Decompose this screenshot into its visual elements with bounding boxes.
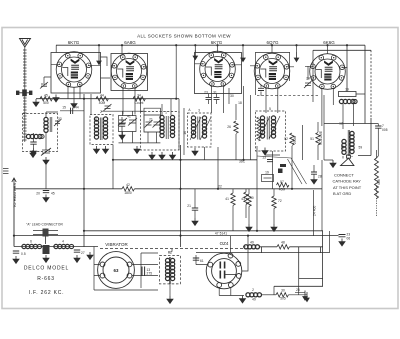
IFT1 secondary (202, 116, 206, 138)
cap at RF sec (119, 124, 125, 126)
vibrator transformer dashed box (159, 256, 180, 284)
vibrator wiring (94, 247, 158, 291)
svg-text:28: 28 (318, 175, 322, 179)
svg-text:21: 21 (149, 118, 153, 122)
tube V4 pin stubs (250, 66, 294, 113)
vibrator unit (98, 252, 135, 289)
cap 20-45 on AVC line (45, 160, 47, 189)
spark plate cap (43, 245, 50, 254)
tube V3 6K7G IF (200, 51, 236, 87)
tube V1 pin stubs (51, 64, 101, 100)
svg-text:72: 72 (278, 199, 282, 203)
heater rail arrow (12, 178, 16, 184)
svg-text:TO HEATERS: TO HEATERS (12, 182, 17, 208)
cap 21 (192, 208, 198, 210)
IFT1 primary (191, 116, 195, 138)
svg-text:19: 19 (265, 171, 269, 175)
svg-text:49: 49 (250, 241, 254, 245)
svg-text:275: 275 (147, 272, 153, 276)
V4 side wires (256, 52, 290, 95)
IFT2 primary (260, 116, 264, 138)
resistor 52 vertical (291, 146, 293, 189)
vertical wires x243 x250 x302 (244, 86, 303, 160)
svg-text:500: 500 (43, 101, 49, 105)
choke 2h bottom (246, 293, 262, 297)
long vertical x324 (323, 95, 325, 160)
gnd below cluster (134, 146, 140, 153)
bus y236 wire (14, 235, 339, 237)
dashed grid lead (257, 95, 318, 97)
cap below ant coil (30, 142, 36, 144)
output transformer secondary (342, 139, 346, 154)
svg-text:VIBRATOR: VIBRATOR (105, 242, 128, 247)
antenna (20, 39, 31, 48)
oscillator coil dashed box (141, 112, 180, 151)
vertical wire x218 (217, 147, 219, 189)
IF transformer 2 dashed box (256, 111, 286, 151)
cluster wires (119, 108, 161, 143)
svg-text:DELCO MODEL: DELCO MODEL (24, 266, 69, 272)
cap 27 (74, 250, 80, 252)
resistor 51 (316, 133, 320, 145)
svg-text:45: 45 (44, 94, 48, 98)
wire volume feed (313, 190, 315, 236)
svg-text:31: 31 (213, 91, 217, 95)
svg-text:505: 505 (280, 297, 286, 301)
trimmer below V2 (104, 104, 112, 111)
resistor box 19 (339, 92, 357, 97)
capacitor 15 (71, 108, 73, 114)
B+ filter wire y246.8 (243, 247, 323, 279)
capacitor 20-45 (43, 191, 49, 193)
svg-text:005: 005 (382, 128, 388, 132)
capacitor 7-005 (375, 126, 381, 128)
svg-text:4: 4 (62, 240, 64, 244)
top bus wire (56, 44, 365, 46)
vertical wire x257 (256, 146, 258, 231)
A lead connector symbol (33, 229, 58, 245)
hash cap left (13, 251, 19, 253)
arrow stub V3 grid (193, 50, 197, 60)
RF transformer primary (94, 117, 98, 139)
long vertical x347 (346, 45, 348, 91)
wires above bottom row (274, 279, 323, 295)
svg-text:3: 3 (198, 109, 200, 113)
svg-text:Count: Count (134, 101, 143, 105)
svg-text:57: 57 (280, 180, 284, 184)
tube V5 6K6G (310, 54, 346, 90)
svg-text:41: 41 (225, 197, 229, 201)
bus y189 wire (14, 188, 322, 190)
vertical wire x113 (112, 145, 114, 161)
speaker (341, 155, 354, 166)
ground below cap 20 (43, 195, 49, 202)
svg-text:49: 49 (252, 298, 256, 302)
svg-text:CONNECT: CONNECT (334, 173, 354, 178)
svg-text:6: 6 (30, 240, 32, 244)
ground bottom right (305, 292, 309, 302)
resistor 26 vertical (234, 121, 238, 133)
wire corner x113 (112, 160, 114, 189)
wire osc coil feeds (141, 99, 185, 155)
ground below ant cap (31, 148, 37, 155)
svg-text:34: 34 (137, 93, 141, 97)
ground below transformer (169, 284, 171, 296)
wire output loop right (324, 118, 378, 156)
svg-text:24 400: 24 400 (313, 206, 317, 216)
svg-text:18: 18 (238, 101, 242, 105)
shield box V3 (195, 53, 242, 94)
svg-text:6A8G: 6A8G (124, 40, 136, 45)
field resistor wires (376, 150, 378, 158)
svg-text:250M: 250M (293, 135, 297, 144)
right section wiring (324, 67, 365, 160)
ground osc 2 (159, 152, 165, 159)
svg-text:CATHODE RAY: CATHODE RAY (333, 179, 362, 184)
svg-text:42: 42 (126, 183, 130, 187)
ground RF secondary (103, 146, 109, 153)
IF transformer 1 dashed box (188, 113, 212, 147)
cap 15uu on line y111 (60, 110, 84, 112)
svg-text:"A" LEAD CONNECTOR: "A" LEAD CONNECTOR (26, 223, 63, 227)
step wire right of V1 (101, 57, 111, 78)
trimmer cap 24 (304, 81, 312, 89)
ground osc 3 (170, 152, 176, 159)
resistor inside IFT2 (257, 117, 261, 141)
svg-text:27: 27 (81, 251, 85, 255)
ground cap 0.5 (13, 256, 19, 263)
choke 49 (244, 245, 260, 249)
svg-text:33: 33 (58, 117, 62, 121)
resistor 48 (277, 245, 289, 249)
trimmer caps between RF and osc (118, 116, 137, 132)
shield box V1 (51, 53, 101, 94)
tube V4 6Q7G (254, 53, 290, 89)
svg-text:I.F. 262 KC.: I.F. 262 KC. (29, 290, 65, 296)
svg-text:40M: 40M (99, 101, 106, 105)
vibrator cap 13 (142, 267, 145, 276)
RF transformer dashed box (90, 115, 113, 145)
osc padder solid box (144, 115, 160, 132)
cap 7 on right (377, 124, 379, 159)
bottom filter wire y246.5 (14, 246, 98, 248)
field coil row (339, 99, 355, 103)
bus y160 wire (113, 159, 257, 161)
ground cap 23 (339, 239, 345, 246)
field resistor vertical (375, 158, 379, 199)
chassis dashed wire (100, 248, 243, 250)
left rail wire (13, 184, 15, 247)
ground below padder (43, 157, 49, 164)
filter choke 1 (22, 244, 38, 248)
svg-text:20: 20 (36, 192, 40, 196)
svg-text:6K6G: 6K6G (323, 40, 335, 45)
caps under V3 box (209, 94, 217, 104)
svg-text:5: 5 (269, 107, 271, 111)
resistor 30 bottom (276, 293, 288, 297)
svg-text:26: 26 (227, 125, 231, 129)
svg-text:40M: 40M (279, 188, 286, 192)
svg-text:24: 24 (306, 77, 310, 81)
scattered part labels (58, 77, 381, 302)
IFT2 secondary (271, 116, 275, 138)
secondary top bus wire (313, 49, 371, 51)
osc coil winding 2 (170, 115, 174, 137)
ground cap 21b (311, 177, 317, 184)
cap 23 bottom right (339, 235, 346, 237)
svg-text:6K7G: 6K7G (211, 40, 223, 45)
ground right of filter (87, 252, 93, 259)
bus y231 wire (84, 231, 323, 286)
tube V5 pin stubs (305, 66, 347, 126)
resistor 45 (40, 97, 52, 101)
heater ground arrows left (30, 150, 36, 157)
svg-text:8: 8 (171, 249, 173, 253)
svg-text:45: 45 (51, 192, 55, 196)
resistor 42 (122, 187, 134, 191)
svg-text:488: 488 (377, 179, 381, 185)
svg-text:22: 22 (218, 185, 222, 189)
wire V5 grid to trimmer (307, 66, 309, 80)
osc coil winding 1 (160, 115, 164, 137)
tube V2 6A8G (111, 53, 147, 89)
resistor divider 43 (248, 189, 250, 194)
ground spark plate (43, 255, 49, 262)
svg-text:1800: 1800 (124, 191, 132, 195)
output transformer primary (350, 131, 354, 153)
ground divider 43 (246, 224, 252, 231)
wire ant coil net (34, 112, 59, 150)
padder trimmer (41, 148, 51, 156)
antenna shielded lead (23, 47, 27, 142)
tube V1 6K7G RF (56, 52, 92, 88)
svg-text:OZ4: OZ4 (220, 241, 229, 246)
OZ4 wiring (196, 236, 248, 271)
svg-text:AT THIS POINT: AT THIS POINT (333, 185, 362, 190)
rectifier OZ4 (206, 253, 242, 289)
vibrator transformer secondary (171, 258, 175, 280)
vertical wire x91 (90, 94, 92, 115)
svg-text:26: 26 (259, 133, 263, 137)
ground cap 21 (192, 218, 198, 225)
svg-text:43: 43 (241, 197, 245, 201)
right corner verticals (364, 45, 366, 123)
svg-text:36C: 36C (239, 160, 246, 164)
svg-text:41: 41 (127, 115, 131, 119)
trimmer left of V1 box (44, 77, 51, 83)
ground left of speaker (330, 160, 336, 167)
ground under OZ4 (240, 296, 246, 303)
resistor 44 (96, 97, 108, 101)
svg-text:61: 61 (200, 259, 204, 263)
ground below IFT1 (192, 148, 198, 155)
field resistor tail (376, 186, 378, 216)
cap 13 (267, 160, 273, 162)
resistor 52 (290, 133, 294, 145)
cap 61 (193, 258, 199, 260)
svg-text:63: 63 (114, 268, 119, 273)
svg-text:VOLUME: VOLUME (319, 131, 323, 145)
resistor divider 72 (273, 189, 275, 196)
resistor 51 vertical (318, 122, 322, 231)
svg-text:ALL SOCKETS SHOWN BOTTOM VIEW: ALL SOCKETS SHOWN BOTTOM VIEW (137, 34, 231, 39)
svg-text:16: 16 (183, 131, 187, 135)
resistor 57 (277, 183, 289, 187)
antenna coil dashed box (23, 114, 58, 152)
svg-text:47 5141: 47 5141 (215, 231, 227, 235)
svg-text:R-663: R-663 (37, 276, 55, 282)
antenna lead plug (16, 89, 32, 96)
svg-text:48: 48 (281, 241, 285, 245)
IFT1 trimmer arrows (190, 117, 211, 140)
svg-text:23: 23 (204, 91, 208, 95)
tube V3 pin stubs (195, 64, 242, 113)
wire x272.5 (265, 151, 280, 189)
svg-text:59: 59 (359, 146, 363, 150)
grounds below osc (149, 152, 155, 159)
svg-text:44: 44 (100, 94, 104, 98)
resistor 41 vertical (231, 193, 235, 205)
filter choke 2 (54, 244, 70, 248)
vertical wire x84 (83, 94, 85, 247)
svg-text:35: 35 (94, 117, 98, 121)
bus stubs to tubes (56, 45, 327, 102)
ground cap 27 (74, 255, 80, 262)
svg-text:6Q7G: 6Q7G (266, 40, 279, 45)
diagonal volume wires (257, 156, 307, 184)
svg-text:13: 13 (262, 156, 266, 160)
svg-text:1: 1 (165, 111, 167, 115)
vertical wire x236 (229, 88, 236, 160)
antenna loop primary (26, 134, 42, 138)
svg-text:2: 2 (100, 110, 102, 114)
gnd bottom mid (303, 291, 307, 301)
trimmer capacitor ant (54, 120, 61, 127)
resistor 40 vertical (244, 192, 248, 204)
svg-text:B AT GRD: B AT GRD (333, 191, 351, 196)
ground below IFT2 (262, 148, 268, 155)
svg-text:51: 51 (310, 137, 314, 141)
svg-text:30: 30 (281, 289, 285, 293)
svg-text:60: 60 (341, 145, 345, 149)
svg-text:6K7G: 6K7G (68, 40, 80, 45)
ground divider 72 (271, 224, 277, 231)
svg-text:06: 06 (347, 237, 351, 241)
svg-text:25: 25 (296, 288, 300, 292)
grounds below RF transformer (94, 146, 100, 153)
comp 40 dark (278, 169, 283, 174)
left edge tick marks (3, 169, 9, 174)
cap 21b (311, 172, 317, 174)
shielded lead dashed vertical (370, 50, 372, 118)
svg-text:21: 21 (187, 204, 191, 208)
AVC arrow V3 (241, 52, 245, 62)
RF transformer secondary (103, 117, 107, 139)
detector network (262, 175, 274, 182)
antenna coil secondary (44, 117, 48, 132)
IFT2 trimmer arrows (259, 116, 280, 139)
ground at bus left end (33, 99, 39, 106)
ground RF cap (119, 132, 125, 139)
OZ4 bottom wires (219, 287, 244, 295)
gnd below V1 box (53, 95, 59, 102)
AVC arrow V1 (97, 55, 101, 65)
svg-text:15: 15 (62, 106, 66, 110)
ground V1 cathode (71, 101, 77, 108)
comp 24 dark (280, 164, 286, 167)
vertical wire x180.5 (180, 145, 182, 247)
caps under V4 (260, 85, 262, 96)
wire staircase right bottom (196, 231, 330, 253)
svg-text:0.5: 0.5 (21, 252, 26, 256)
resistor 34 (133, 97, 145, 101)
AVC arrow V4 (294, 52, 298, 62)
svg-text:30: 30 (230, 94, 234, 98)
bus y99 wire (36, 98, 179, 100)
shield box V2 (111, 54, 148, 91)
wire cluster tops y111 (101, 111, 144, 116)
svg-text:52: 52 (284, 137, 288, 141)
svg-text:2: 2 (252, 288, 254, 292)
tube V2 pin stubs (111, 66, 148, 115)
svg-text:12: 12 (339, 122, 343, 126)
vibrator transformer winding (166, 258, 170, 280)
